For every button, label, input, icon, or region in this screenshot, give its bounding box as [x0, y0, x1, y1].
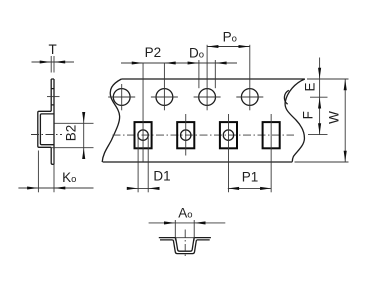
section profile: flanges: [159, 238, 211, 254]
dimension Do: [188, 45, 227, 88]
pocket 1: [135, 122, 152, 148]
section outer U: [173, 240, 197, 254]
dimension D1: [127, 135, 171, 192]
section inner U: [175, 238, 195, 252]
tape bottom edge: [103, 161, 293, 163]
hole CL extension: [310, 96, 328, 98]
right break curve: [285, 79, 305, 162]
sprocket hole 4: [241, 89, 258, 106]
section centerline: [184, 230, 186, 259]
svg-text:D1: D1: [153, 168, 170, 183]
pocket 4: [263, 122, 280, 148]
sprocket hole 1: [113, 89, 130, 106]
left break curve: [102, 79, 121, 162]
pocket 2: [177, 122, 194, 148]
dimension W: [327, 79, 347, 162]
sprocket hole 3: [199, 89, 216, 106]
dimension Ko: [18, 150, 93, 193]
dimension B2: [52, 112, 94, 159]
svg-text:P2: P2: [145, 45, 162, 60]
tape strip side profile: [38, 79, 54, 164]
dimension Po: [207, 30, 250, 49]
dimension P2: [121, 45, 237, 65]
svg-text:B2: B2: [63, 125, 78, 142]
dimension E / F line: [301, 58, 321, 135]
dimension Ao: [149, 205, 226, 240]
sprocket hole 2: [156, 89, 173, 106]
top edge extension: [307, 78, 349, 80]
pocket 3: [220, 122, 237, 148]
pocket row centerline: [113, 134, 295, 136]
svg-text:P1: P1: [242, 170, 259, 185]
bottom edge extension: [295, 161, 349, 163]
svg-text:T: T: [48, 42, 56, 57]
partial sprocket hole 5 at break: [284, 90, 288, 104]
sprocket hole edge ticks on strip: [51, 89, 54, 105]
side view hole centerline: [47, 96, 60, 98]
dimension P1: [228, 170, 272, 190]
dimension T: [32, 42, 75, 72]
side view pocket centerline: [31, 134, 62, 136]
pocket CL extension: [308, 134, 328, 136]
svg-text:W: W: [327, 111, 342, 124]
svg-text:E: E: [303, 82, 318, 91]
svg-text:F: F: [301, 111, 316, 119]
pocket bulge inner: [40, 114, 54, 145]
tape surface line across pocket mouth: [175, 237, 195, 239]
tape top edge: [121, 78, 304, 80]
pocket bulge outer: [38, 111, 51, 147]
